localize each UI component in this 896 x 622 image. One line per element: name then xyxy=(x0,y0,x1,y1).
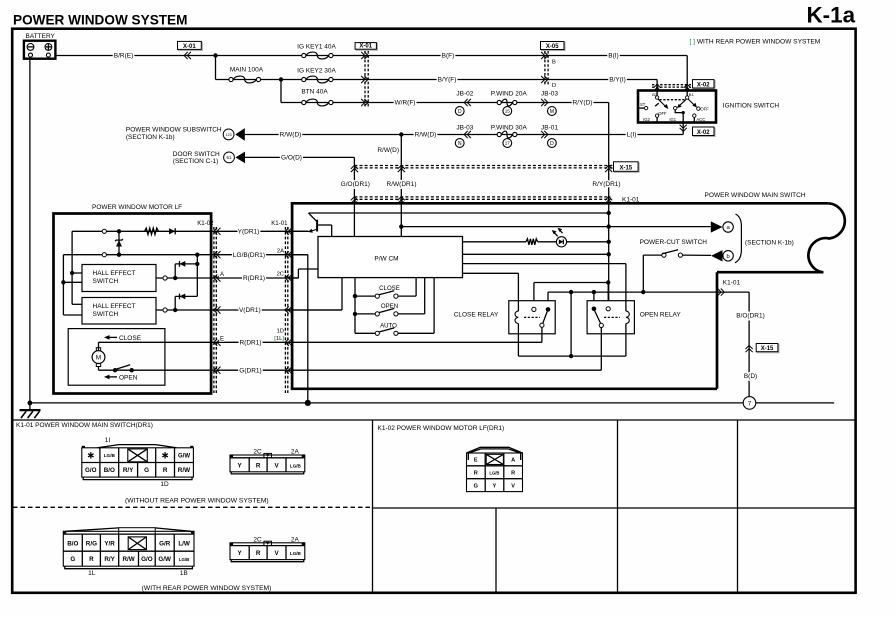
open arrow xyxy=(104,374,138,381)
svg-text:OPEN RELAY: OPEN RELAY xyxy=(640,312,682,319)
connector pinout K1-01 (with rear), label 1L/1B xyxy=(63,528,194,577)
svg-text:CLOSE: CLOSE xyxy=(379,285,400,292)
svg-text:R/G: R/G xyxy=(86,540,97,547)
wire G/O(D) row xyxy=(245,156,354,158)
wire left vertical Y feed xyxy=(70,231,82,304)
svg-text:OFF: OFF xyxy=(700,107,709,112)
close relay xyxy=(454,301,556,334)
wire L(I) up to ignition IG1 xyxy=(682,123,684,135)
svg-text:HALL EFFECT: HALL EFFECT xyxy=(93,303,136,310)
hall2 output xyxy=(156,308,211,312)
svg-text:G/R: G/R xyxy=(159,540,171,547)
power window motor LF box xyxy=(54,204,212,394)
wire to MAIN fuse xyxy=(215,56,217,80)
svg-text:BTN 40A: BTN 40A xyxy=(301,89,328,96)
svg-text:G/O(DR1): G/O(DR1) xyxy=(341,181,370,188)
indicator LED xyxy=(552,228,567,247)
svg-text:K1-01: K1-01 xyxy=(723,280,741,287)
svg-text:R/W(DR1): R/W(DR1) xyxy=(387,181,417,188)
wire to indicator xyxy=(463,239,611,245)
svg-text:R/W: R/W xyxy=(122,556,134,563)
svg-text:P.WIND 20A: P.WIND 20A xyxy=(491,90,528,97)
svg-text:M: M xyxy=(550,109,554,115)
power-cut switch xyxy=(640,239,711,292)
svg-text:JB-03: JB-03 xyxy=(541,90,558,97)
power window subswitch arrow xyxy=(126,127,245,141)
svg-text:LG/B: LG/B xyxy=(290,551,302,556)
dashed divider in K1-01 table xyxy=(13,506,372,508)
svg-text:R(DR1): R(DR1) xyxy=(239,340,261,347)
svg-text:JB-03: JB-03 xyxy=(456,124,473,131)
svg-text:R/Y: R/Y xyxy=(123,467,134,474)
wire LG/B internal xyxy=(63,254,211,256)
switch OPEN xyxy=(353,278,425,316)
svg-text:B/R(E): B/R(E) xyxy=(114,53,134,60)
wire collector row xyxy=(309,212,609,214)
svg-text:JB-01: JB-01 xyxy=(541,124,558,131)
svg-text:P.WIND 30A: P.WIND 30A xyxy=(491,124,528,131)
svg-text:(SECTION K-1b): (SECTION K-1b) xyxy=(745,239,794,246)
svg-text:K1-01 POWER WINDOW MAIN SWITCH: K1-01 POWER WINDOW MAIN SWITCH(DR1) xyxy=(16,422,153,429)
svg-text:B(I): B(I) xyxy=(608,53,618,60)
svg-text:2A: 2A xyxy=(291,449,300,456)
contact circle LG/B xyxy=(102,253,106,257)
motor M xyxy=(92,348,105,367)
open relay output G xyxy=(600,328,602,371)
svg-text:HALL EFFECT: HALL EFFECT xyxy=(93,270,136,277)
wire LG/B to ground xyxy=(288,255,311,406)
svg-text:B1: B1 xyxy=(689,92,695,97)
bracket section K-1b xyxy=(735,214,741,263)
wire R/W branch to arrow a xyxy=(401,226,711,228)
svg-text:LG/B: LG/B xyxy=(104,453,116,458)
svg-text:POWER-CUT SWITCH: POWER-CUT SWITCH xyxy=(640,239,708,246)
svg-text:17: 17 xyxy=(505,141,511,146)
diode Y row xyxy=(169,228,175,234)
wire G internal xyxy=(99,369,212,371)
wire row2 xyxy=(216,79,658,81)
fuse BTN 40A xyxy=(302,100,306,104)
svg-text:K1-02 POWER WINDOW MOTOR LF(DR: K1-02 POWER WINDOW MOTOR LF(DR1) xyxy=(378,425,505,432)
junction row1 xyxy=(213,53,217,57)
connector pinout 2C/2A (with rear) xyxy=(230,536,305,561)
column crossing marks xyxy=(214,228,218,235)
svg-text:Y/R: Y/R xyxy=(104,540,115,547)
svg-text:G/O: G/O xyxy=(85,467,97,474)
svg-text:BATTERY: BATTERY xyxy=(26,33,56,40)
wire Y internal xyxy=(72,230,211,232)
connector X-15 line xyxy=(351,162,639,173)
battery xyxy=(24,33,56,59)
svg-text:LG/B: LG/B xyxy=(489,471,499,476)
wire B/Y(I) down to ignition B2 xyxy=(656,80,658,96)
wire R(E) internal xyxy=(99,342,212,350)
svg-text:(SECTION K-1b): (SECTION K-1b) xyxy=(126,134,175,141)
svg-text:[ ] WITH REAR POWER WINDOW SYS: [ ] WITH REAR POWER WINDOW SYSTEM xyxy=(690,39,821,46)
svg-text:POWER WINDOW SYSTEM: POWER WINDOW SYSTEM xyxy=(13,12,187,27)
connector K1-02 column xyxy=(197,220,216,393)
svg-text:MAIN 100A: MAIN 100A xyxy=(230,67,264,74)
svg-text:R: R xyxy=(474,471,478,477)
close relay output 1D xyxy=(541,327,543,342)
svg-text:G/O(D): G/O(D) xyxy=(281,155,302,162)
svg-text:R/Y(DR1): R/Y(DR1) xyxy=(592,181,620,188)
svg-text:W/R(F): W/R(F) xyxy=(395,100,416,107)
svg-text:POWER WINDOW SUBSWITCH: POWER WINDOW SUBSWITCH xyxy=(126,127,222,134)
svg-text:CLOSE: CLOSE xyxy=(119,335,142,342)
contact circle Y xyxy=(102,229,106,233)
connector K1-01 column xyxy=(271,220,288,393)
svg-text:61: 61 xyxy=(227,155,232,160)
svg-text:X-01: X-01 xyxy=(183,44,196,50)
svg-text:b: b xyxy=(726,254,729,260)
svg-text:AUTO: AUTO xyxy=(380,322,397,329)
junction LG/B right xyxy=(195,253,199,257)
svg-text:A: A xyxy=(220,272,224,278)
power window main switch box xyxy=(291,192,845,389)
svg-text:V: V xyxy=(511,484,515,490)
svg-text:CLOSE RELAY: CLOSE RELAY xyxy=(454,312,499,319)
svg-text:POWER WINDOW MAIN SWITCH: POWER WINDOW MAIN SWITCH xyxy=(705,192,806,199)
connector K1-01 line horizontal xyxy=(351,196,640,203)
svg-text:OPEN: OPEN xyxy=(381,303,398,310)
svg-text:OFF: OFF xyxy=(658,111,667,116)
svg-text:X-02: X-02 xyxy=(697,82,710,88)
junction LG/B left xyxy=(117,253,121,257)
svg-text:(SECTION C-1): (SECTION C-1) xyxy=(173,158,219,165)
junction row2 xyxy=(279,77,283,81)
hall effect switch 2 xyxy=(82,298,156,325)
svg-text:B/O: B/O xyxy=(104,467,115,474)
svg-text:G: G xyxy=(474,484,478,490)
svg-text:K1-01: K1-01 xyxy=(271,220,288,227)
connector X-01 (1) xyxy=(179,42,203,50)
wire CM to open relay coil xyxy=(463,264,626,301)
wire R(DR1) row A-2C xyxy=(211,277,298,279)
svg-text:R/W: R/W xyxy=(178,467,190,474)
svg-text:G(DR1): G(DR1) xyxy=(239,367,261,374)
junction block JB-02 xyxy=(455,90,473,115)
wire R/W(D) row xyxy=(245,134,683,136)
wire coil common xyxy=(518,301,626,359)
svg-text:X-15: X-15 xyxy=(761,346,774,352)
svg-text:E: E xyxy=(474,458,478,464)
junction block JB-03 (row3) xyxy=(541,90,558,115)
svg-text:IGNITION SWITCH: IGNITION SWITCH xyxy=(723,102,780,109)
wire B/O common xyxy=(548,290,749,356)
svg-text:X-05: X-05 xyxy=(546,44,559,50)
ground connector 7 xyxy=(743,397,756,410)
door switch arrow xyxy=(173,151,245,165)
switch CLOSE xyxy=(353,278,416,334)
fuse P.WIND 20A xyxy=(491,90,528,115)
wire motor to open contact xyxy=(98,367,100,371)
wire R/Y to relay contacts xyxy=(534,280,611,307)
svg-text:X-02: X-02 xyxy=(697,130,710,136)
wire V(DR1) row xyxy=(211,309,342,311)
motor sub box xyxy=(68,329,165,386)
wire battery negative to ground bus xyxy=(29,57,31,410)
svg-text:15: 15 xyxy=(505,109,511,114)
svg-text:R: R xyxy=(256,462,261,469)
ground symbol xyxy=(20,410,41,418)
connector pinout 2C/2A (without rear) xyxy=(230,449,305,474)
junction block JB-01 xyxy=(541,124,558,147)
fuse IG KEY1 40A xyxy=(302,53,306,57)
svg-text:A: A xyxy=(511,458,515,464)
svg-text:1B: 1B xyxy=(180,570,188,577)
svg-text:E: E xyxy=(220,336,224,342)
svg-text:DOOR SWITCH: DOOR SWITCH xyxy=(173,151,220,158)
svg-text:LG/B(DR1): LG/B(DR1) xyxy=(233,252,265,259)
svg-text:2C: 2C xyxy=(277,272,284,278)
open contact xyxy=(113,365,134,373)
svg-text:SWITCH: SWITCH xyxy=(93,311,119,318)
svg-text:R/W(D): R/W(D) xyxy=(280,132,302,139)
fuse P.WIND 30A xyxy=(491,124,528,147)
connector X-15 (B/O) xyxy=(746,344,779,353)
wire CM to power-cut junction xyxy=(463,253,609,255)
fuse MAIN 100A xyxy=(229,77,233,81)
diode branch 1 xyxy=(175,255,199,297)
svg-text:X-01: X-01 xyxy=(359,44,372,50)
svg-text:B/Y(I): B/Y(I) xyxy=(609,77,626,84)
svg-text:R: R xyxy=(511,471,515,477)
svg-text:LG/B: LG/B xyxy=(290,463,302,468)
close arrow xyxy=(104,335,142,342)
svg-text:N: N xyxy=(458,141,462,147)
svg-text:L(I): L(I) xyxy=(627,132,637,139)
svg-text:X-15: X-15 xyxy=(619,166,632,172)
svg-text:B/O(DR1): B/O(DR1) xyxy=(736,312,765,319)
svg-text:V(DR1): V(DR1) xyxy=(239,307,261,314)
zener diode vertical xyxy=(115,231,123,254)
wire CM to close relay coil xyxy=(463,273,519,300)
svg-text:2A: 2A xyxy=(277,248,284,254)
connector pinout K1-01 (without rear), label 1I/1D xyxy=(82,437,194,488)
transistor Q1 xyxy=(288,213,332,237)
connector X-05 column xyxy=(541,42,566,90)
svg-text:D: D xyxy=(458,109,462,115)
junction block JB-03 (row4) xyxy=(455,124,473,147)
svg-text:Y(DR1): Y(DR1) xyxy=(238,229,260,236)
svg-text:2C: 2C xyxy=(253,449,262,456)
svg-text:L/W: L/W xyxy=(178,540,190,547)
hall effect switch 1 xyxy=(82,265,156,292)
junction Y xyxy=(117,229,121,233)
wire B/O(DR1) out xyxy=(718,280,765,397)
wire R(DR1) row E-1D xyxy=(211,341,542,343)
wire B/R(E) row xyxy=(55,55,687,57)
svg-text:SWITCH: SWITCH xyxy=(93,278,119,285)
connector pinout K1-02 3x3 xyxy=(467,447,523,491)
svg-text:IG KEY1 40A: IG KEY1 40A xyxy=(297,44,336,51)
svg-text:123: 123 xyxy=(226,133,232,137)
wire left vertical LG/B feed xyxy=(61,255,82,315)
wire G(DR1) row xyxy=(211,369,601,371)
open relay xyxy=(587,301,681,334)
resistor motor xyxy=(145,228,159,234)
svg-text:G/W: G/W xyxy=(178,454,190,460)
wire Y(DR1) row xyxy=(211,230,308,232)
svg-text:(WITHOUT REAR POWER WINDOW SYS: (WITHOUT REAR POWER WINDOW SYSTEM) xyxy=(125,497,269,504)
svg-text:R: R xyxy=(256,550,261,557)
connector X-02 upper xyxy=(652,80,715,92)
svg-text:R: R xyxy=(89,556,94,563)
svg-text:P/W CM: P/W CM xyxy=(374,256,398,263)
connector X-02 lower xyxy=(680,125,715,137)
svg-text:[1L]: [1L] xyxy=(274,336,284,342)
svg-text:OPEN: OPEN xyxy=(119,374,138,381)
svg-text:B: B xyxy=(552,60,556,66)
diode branch 2 xyxy=(175,294,197,311)
svg-text:1D: 1D xyxy=(277,328,284,334)
wire R/W vertical xyxy=(400,135,402,237)
connector X-01 (2) column xyxy=(355,43,377,108)
wire row3 xyxy=(281,102,609,104)
svg-text:1L: 1L xyxy=(88,570,96,577)
wire R/Y(D)/R/Y(DR1) vertical xyxy=(608,103,610,307)
svg-text:B(D): B(D) xyxy=(744,373,757,380)
P/W CM module xyxy=(318,237,463,278)
svg-text:1I: 1I xyxy=(105,437,111,444)
junction battery ground xyxy=(28,401,33,406)
svg-text:D: D xyxy=(550,141,554,147)
ground bus wire xyxy=(30,402,834,404)
switch AUTO xyxy=(355,278,434,336)
svg-text:B/Y(F): B/Y(F) xyxy=(438,77,457,84)
svg-text:POWER WINDOW MOTOR LF: POWER WINDOW MOTOR LF xyxy=(92,204,182,211)
svg-text:R/W(D): R/W(D) xyxy=(377,147,399,154)
svg-text:B(F): B(F) xyxy=(442,53,455,60)
arrow b xyxy=(711,250,733,261)
wire B(I) down to ignition B1 xyxy=(686,56,688,96)
svg-text:R/Y: R/Y xyxy=(104,556,115,563)
svg-text:JB-02: JB-02 xyxy=(456,90,473,97)
junction R/W(D) xyxy=(399,132,403,136)
svg-text:R/W(D): R/W(D) xyxy=(415,132,437,139)
svg-text:R: R xyxy=(163,467,168,474)
svg-text:G/O: G/O xyxy=(141,556,153,563)
svg-text:2A: 2A xyxy=(291,536,300,543)
svg-text:K-1a: K-1a xyxy=(807,3,856,28)
svg-text:R(DR1): R(DR1) xyxy=(243,275,265,282)
svg-text:Y: Y xyxy=(493,484,497,490)
wire branch to BTN fuse xyxy=(280,80,282,103)
svg-text:ACC: ACC xyxy=(696,117,705,122)
svg-text:2C: 2C xyxy=(253,536,262,543)
svg-text:1D: 1D xyxy=(160,481,169,488)
svg-text:IG2: IG2 xyxy=(643,117,650,122)
hall1 output xyxy=(156,276,211,280)
wire G/O vertical xyxy=(353,157,355,236)
svg-text:G: G xyxy=(144,467,149,474)
svg-text:R/Y(D): R/Y(D) xyxy=(573,100,593,107)
svg-text:LG/B: LG/B xyxy=(179,557,190,562)
ignition switch xyxy=(638,91,716,123)
svg-text:IG1: IG1 xyxy=(669,117,676,122)
svg-text:G/W: G/W xyxy=(158,556,171,563)
wire V up into P/W CM xyxy=(288,278,342,310)
svg-text:IG KEY2 30A: IG KEY2 30A xyxy=(297,67,336,74)
svg-text:D: D xyxy=(552,83,556,89)
wire LG/B(DR1) row xyxy=(211,254,308,256)
svg-text:G: G xyxy=(70,556,75,563)
svg-text:(WITH REAR POWER WINDOW SYSTEM: (WITH REAR POWER WINDOW SYSTEM) xyxy=(142,585,272,592)
wire R 2C jog into P/W CM xyxy=(288,269,318,278)
fuse IG KEY2 30A xyxy=(302,77,306,81)
svg-text:B/O: B/O xyxy=(67,540,78,547)
svg-text:M: M xyxy=(96,355,101,362)
arrow a xyxy=(711,221,734,232)
table grid xyxy=(12,419,855,421)
